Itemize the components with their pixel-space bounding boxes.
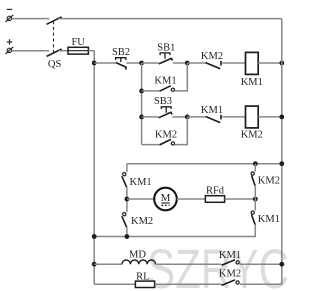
wire xyxy=(175,63,188,91)
svg-text:RFd: RFd xyxy=(206,186,225,197)
svg-text:SB1: SB1 xyxy=(157,42,175,53)
resistor RL xyxy=(135,281,154,287)
resistor RFd xyxy=(205,196,224,203)
wire xyxy=(94,263,122,265)
node coil KM1 right bus xyxy=(279,61,284,66)
svg-text:KM1: KM1 xyxy=(130,177,152,188)
wire xyxy=(240,263,282,265)
svg-text:KM2: KM2 xyxy=(258,175,280,186)
wire xyxy=(258,62,282,64)
wire xyxy=(94,283,135,285)
svg-text:KM1: KM1 xyxy=(241,77,263,88)
wire xyxy=(258,116,282,118)
node armature left xyxy=(125,197,130,202)
wire xyxy=(175,117,188,145)
wire xyxy=(254,186,256,211)
label − xyxy=(7,8,12,10)
node coil KM2 right bus xyxy=(279,115,284,120)
node left bus row1 xyxy=(92,61,97,66)
contact KM1 NO field row xyxy=(222,260,240,266)
svg-text:M: M xyxy=(161,192,171,204)
contact KM2 NO brake resistor xyxy=(222,280,240,286)
contact KM1 NO brake arm xyxy=(251,211,255,225)
node bridge top right KM2 xyxy=(253,161,258,166)
node bridge bottom armature leg xyxy=(125,234,130,239)
wire xyxy=(254,164,256,172)
node field row right bus xyxy=(279,262,284,267)
wire xyxy=(126,164,128,173)
svg-text:SB3: SB3 xyxy=(154,96,172,107)
wire xyxy=(59,50,68,52)
svg-text:KM2: KM2 xyxy=(241,129,263,140)
left bus wire xyxy=(93,63,95,284)
svg-text:MD: MD xyxy=(129,249,146,260)
coil KM1 xyxy=(246,52,259,74)
inductor MD field winding xyxy=(122,260,156,264)
wire xyxy=(12,50,49,52)
wire xyxy=(225,198,256,200)
wire xyxy=(12,18,50,20)
svg-text:KM1: KM1 xyxy=(154,75,176,86)
wire xyxy=(126,227,128,236)
contact KM2 NO brake arm xyxy=(251,172,255,186)
wire xyxy=(88,51,94,63)
svg-text:FU: FU xyxy=(71,37,85,48)
knife switch QS pole 2 xyxy=(47,49,62,56)
wire xyxy=(177,198,206,200)
wire xyxy=(94,62,116,64)
node bridge top right bus xyxy=(279,161,284,166)
contact KM2 NO armature reverse xyxy=(122,213,127,228)
wire xyxy=(172,116,187,118)
wire bridge bottom xyxy=(94,225,255,237)
wire xyxy=(222,116,245,118)
wire xyxy=(187,62,205,64)
wire xyxy=(142,62,159,64)
contact KM2 NC interlock row1 xyxy=(206,61,221,69)
terminal negative xyxy=(6,15,14,22)
wire bridge top xyxy=(127,163,282,165)
pushbutton SB2 stop NC xyxy=(116,58,126,70)
node branch SB3 row xyxy=(139,115,144,120)
node branch KM1 holding row xyxy=(139,89,144,94)
svg-text:SB2: SB2 xyxy=(112,47,130,58)
svg-text:KM2: KM2 xyxy=(201,51,223,62)
wire xyxy=(187,116,205,118)
wire xyxy=(126,62,141,64)
wire xyxy=(240,283,282,285)
terminal positive xyxy=(6,47,14,54)
wire xyxy=(126,187,128,212)
fuse FU xyxy=(68,47,88,54)
wire xyxy=(173,62,188,64)
svg-text:RL: RL xyxy=(136,271,149,282)
right bus wire xyxy=(281,19,283,285)
pushbutton SB1 start NO xyxy=(159,53,173,64)
wire xyxy=(142,116,159,118)
contact KM1 NO armature forward xyxy=(122,173,127,188)
svg-text:KM2: KM2 xyxy=(131,216,153,227)
branch bus wire xyxy=(141,63,143,145)
wire xyxy=(142,90,160,92)
svg-text:KM2: KM2 xyxy=(155,129,177,140)
contact KM1 NC interlock row2 xyxy=(206,115,221,123)
wire xyxy=(222,62,245,64)
svg-text:KM1: KM1 xyxy=(201,105,223,116)
wire xyxy=(156,263,222,265)
node left bus field row xyxy=(92,262,97,267)
contact KM1 NO holding xyxy=(160,86,175,92)
wire xyxy=(142,144,160,146)
node SB3 out xyxy=(185,115,190,120)
wire xyxy=(59,18,282,20)
node armature right xyxy=(253,197,258,202)
pushbutton SB3 start NO xyxy=(159,107,173,118)
svg-text:KM1: KM1 xyxy=(219,250,241,261)
node bridge bottom left bus xyxy=(92,234,97,239)
label + xyxy=(7,39,13,45)
svg-text:KM2: KM2 xyxy=(219,269,241,280)
svg-text:KM1: KM1 xyxy=(258,214,280,225)
node SB1 out xyxy=(185,61,190,66)
knife switch QS pole 1 xyxy=(47,17,62,24)
wire xyxy=(155,283,222,285)
contact KM2 NO holding xyxy=(160,139,175,145)
svg-text:QS: QS xyxy=(48,59,62,70)
motor M xyxy=(154,188,177,211)
wire xyxy=(127,198,154,200)
node SB2 SB1 junction xyxy=(139,61,144,66)
QS gang link dashed xyxy=(53,21,55,53)
coil KM2 xyxy=(246,106,259,128)
